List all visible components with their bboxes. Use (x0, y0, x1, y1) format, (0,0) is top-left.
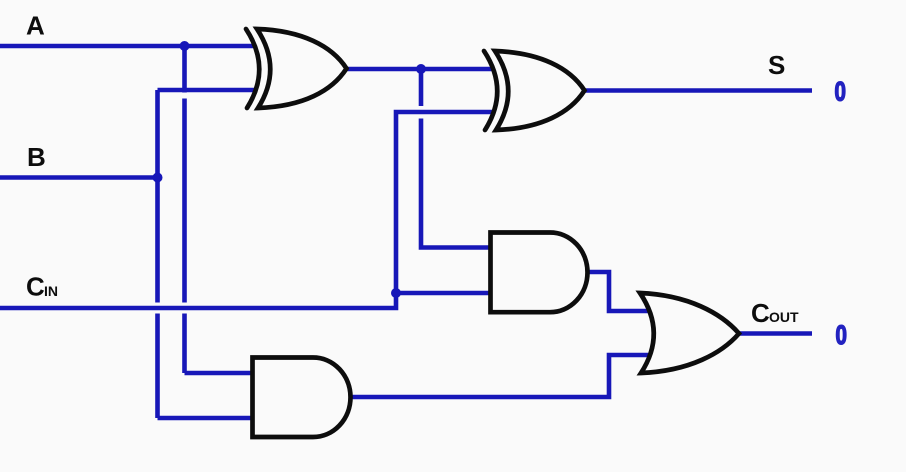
svg-text:S: S (768, 50, 785, 80)
svg-text:IN: IN (44, 283, 58, 299)
svg-text:C: C (26, 272, 45, 302)
svg-text:OUT: OUT (769, 309, 799, 325)
svg-text:0: 0 (835, 77, 846, 107)
svg-text:A: A (26, 11, 45, 41)
svg-text:C: C (751, 298, 770, 328)
svg-text:0: 0 (836, 320, 847, 350)
svg-text:B: B (27, 142, 46, 172)
